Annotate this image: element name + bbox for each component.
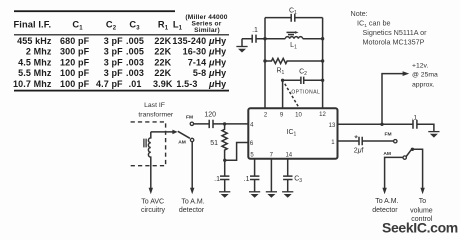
svg-text:13: 13: [329, 123, 336, 129]
svg-text:detector: detector: [179, 207, 205, 214]
svg-text:300 pF: 300 pF: [60, 47, 90, 57]
svg-text:100 pF: 100 pF: [60, 68, 90, 78]
svg-text:AM: AM: [178, 140, 186, 146]
svg-text:51: 51: [210, 140, 218, 147]
svg-text:12: 12: [319, 112, 326, 118]
svg-text:22K: 22K: [154, 57, 171, 67]
svg-text:22K: 22K: [154, 47, 171, 57]
svg-text:+12v.: +12v.: [412, 63, 428, 70]
svg-text:R1: R1: [158, 19, 169, 31]
svg-text:R1: R1: [276, 67, 284, 76]
svg-text:120 pF: 120 pF: [60, 57, 90, 67]
svg-text:L1: L1: [173, 19, 183, 31]
svg-text:.1: .1: [214, 176, 220, 183]
svg-text:4.5 Mhz: 4.5 Mhz: [18, 57, 52, 67]
svg-text:3 pF: 3 pF: [104, 47, 123, 57]
svg-text:To A.M.: To A.M.: [181, 198, 204, 205]
svg-text:455 kHz: 455 kHz: [17, 36, 52, 46]
svg-text:14: 14: [285, 152, 292, 158]
svg-text:FM: FM: [384, 131, 391, 137]
svg-text:2: 2: [264, 113, 268, 119]
svg-text:C1: C1: [72, 19, 83, 31]
svg-text:.003: .003: [126, 68, 144, 78]
svg-text:@ 25ma: @ 25ma: [412, 72, 438, 79]
svg-text:SeekIC.com: SeekIC.com: [382, 220, 458, 236]
svg-text:120: 120: [204, 111, 216, 118]
svg-text:100 pF: 100 pF: [60, 79, 90, 89]
svg-text:AM: AM: [383, 151, 391, 157]
svg-text:C1: C1: [289, 8, 297, 17]
svg-text:L1: L1: [290, 42, 297, 51]
svg-text:To: To: [419, 198, 427, 205]
svg-text:C2: C2: [299, 68, 307, 77]
svg-text:.005: .005: [126, 36, 144, 46]
svg-text:10.7 Mhz: 10.7 Mhz: [13, 79, 52, 89]
svg-text:.01: .01: [129, 79, 142, 89]
svg-text:.003: .003: [126, 57, 144, 67]
svg-text:transformer: transformer: [138, 112, 173, 119]
svg-text:2 Mhz: 2 Mhz: [26, 47, 52, 57]
svg-text:5.5 Mhz: 5.5 Mhz: [18, 68, 52, 78]
svg-text:volume: volume: [410, 207, 433, 214]
svg-text:OPTIONAL: OPTIONAL: [291, 90, 320, 96]
svg-text:680 pF: 680 pF: [60, 36, 90, 46]
svg-text:IC1: IC1: [287, 129, 297, 138]
svg-text:To A.M.: To A.M.: [375, 198, 398, 205]
svg-text:circuitry: circuitry: [141, 207, 166, 214]
svg-text:Similar): Similar): [194, 27, 220, 34]
svg-text:FM: FM: [186, 115, 193, 121]
svg-text:22K: 22K: [154, 36, 171, 46]
svg-text:Last IF: Last IF: [144, 102, 165, 109]
svg-text:*: *: [354, 134, 358, 145]
svg-text:μHy: μHy: [208, 57, 226, 67]
svg-text:Note:: Note:: [351, 9, 368, 18]
svg-text:7-14: 7-14: [188, 57, 207, 67]
svg-text:Signetics N5111A or: Signetics N5111A or: [363, 28, 428, 37]
svg-text:1: 1: [331, 140, 335, 146]
svg-text:detector: detector: [372, 207, 398, 214]
svg-text:16-30: 16-30: [183, 47, 207, 57]
svg-text:μHy: μHy: [208, 68, 226, 78]
svg-text:.1: .1: [252, 27, 258, 34]
svg-text:C3: C3: [129, 19, 140, 31]
svg-text:3.9K: 3.9K: [153, 79, 173, 89]
svg-text:2μf: 2μf: [354, 147, 364, 154]
svg-text:C2: C2: [106, 19, 117, 31]
svg-text:3 pF: 3 pF: [104, 57, 123, 67]
svg-text:4: 4: [250, 122, 254, 128]
svg-text:3 pF: 3 pF: [104, 68, 123, 78]
svg-text:μHy: μHy: [208, 47, 226, 57]
svg-text:10: 10: [295, 112, 302, 118]
svg-text:6: 6: [250, 141, 254, 147]
svg-text:Final I.F.: Final I.F.: [14, 19, 52, 29]
svg-text:4.7 pF: 4.7 pF: [96, 79, 123, 89]
svg-text:22K: 22K: [154, 68, 171, 78]
svg-text:3 pF: 3 pF: [104, 36, 123, 46]
svg-text:.1: .1: [412, 115, 418, 122]
svg-text:135-240: 135-240: [172, 36, 206, 46]
svg-text:1.5-3: 1.5-3: [176, 79, 197, 89]
svg-text:.1: .1: [244, 176, 250, 183]
svg-text:Motorola MC1357P: Motorola MC1357P: [363, 37, 425, 46]
svg-text:5: 5: [250, 152, 254, 158]
svg-text:9: 9: [280, 113, 284, 119]
svg-text:C3: C3: [294, 176, 302, 185]
svg-text:5-8: 5-8: [193, 68, 206, 78]
svg-text:To AVC: To AVC: [141, 198, 164, 205]
svg-text:7: 7: [270, 152, 274, 158]
svg-text:μHy: μHy: [208, 36, 226, 46]
svg-text:.005: .005: [126, 47, 144, 57]
svg-text:approx.: approx.: [412, 82, 435, 89]
svg-text:μHy: μHy: [208, 79, 226, 89]
